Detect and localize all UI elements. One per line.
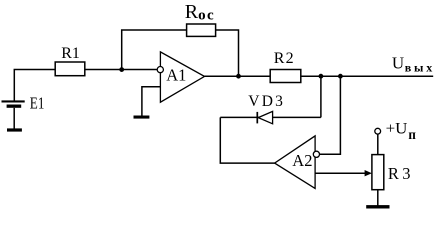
wire A1 output line to Uvyh	[205, 75, 434, 77]
resistor R3 (potentiometer)	[372, 155, 384, 190]
op-amp A2	[275, 136, 316, 189]
wire Roc to output node	[216, 30, 239, 76]
svg-text:+U: +U	[386, 121, 408, 138]
wire R3 top to supply terminal	[377, 134, 379, 154]
svg-text:E1: E1	[30, 94, 45, 113]
svg-text:п: п	[408, 127, 416, 142]
svg-text:R3: R3	[388, 164, 414, 183]
ground bar A1	[134, 116, 150, 119]
svg-text:R2: R2	[274, 50, 295, 67]
node junction feedback/output	[236, 74, 241, 79]
svg-text:A1: A1	[166, 66, 186, 85]
svg-text:A2: A2	[292, 151, 312, 170]
ground bar below E1	[7, 128, 22, 131]
wire A2 inverting input to output node	[320, 76, 341, 154]
node junction at R1 / feedback	[119, 67, 124, 72]
wire VD3 to A2 output	[220, 117, 274, 163]
wire A2 noninverting input to R3 wiper	[315, 172, 365, 174]
node junction VD3 branch	[319, 74, 324, 79]
inversion circle A1 input	[157, 67, 163, 73]
wire VD3 horizontal	[220, 116, 321, 118]
wire input from battery corner to R1	[14, 70, 55, 101]
inversion circle A2 input	[313, 151, 319, 157]
svg-text:R1: R1	[61, 45, 80, 62]
battery E1	[2, 100, 25, 128]
wiper arrow into R3	[365, 170, 372, 176]
node junction A2 input branch	[338, 74, 343, 79]
wire R3 bottom to ground	[377, 190, 379, 206]
resistor Roc	[187, 24, 216, 36]
op-amp A1	[160, 52, 204, 102]
wire VD3 branch down from output node	[320, 76, 322, 117]
diode VD3	[257, 111, 272, 123]
wire R1 to A1 inverting input	[85, 69, 158, 71]
resistor R2	[270, 70, 301, 83]
wire A1 noninverting input to ground	[142, 87, 161, 116]
svg-text:VD3: VD3	[248, 93, 285, 110]
ground bar R3	[366, 205, 389, 208]
resistor R1	[55, 62, 85, 76]
wire feedback up from junction to Roc	[122, 30, 187, 70]
supply terminal circle +Up	[375, 128, 381, 134]
